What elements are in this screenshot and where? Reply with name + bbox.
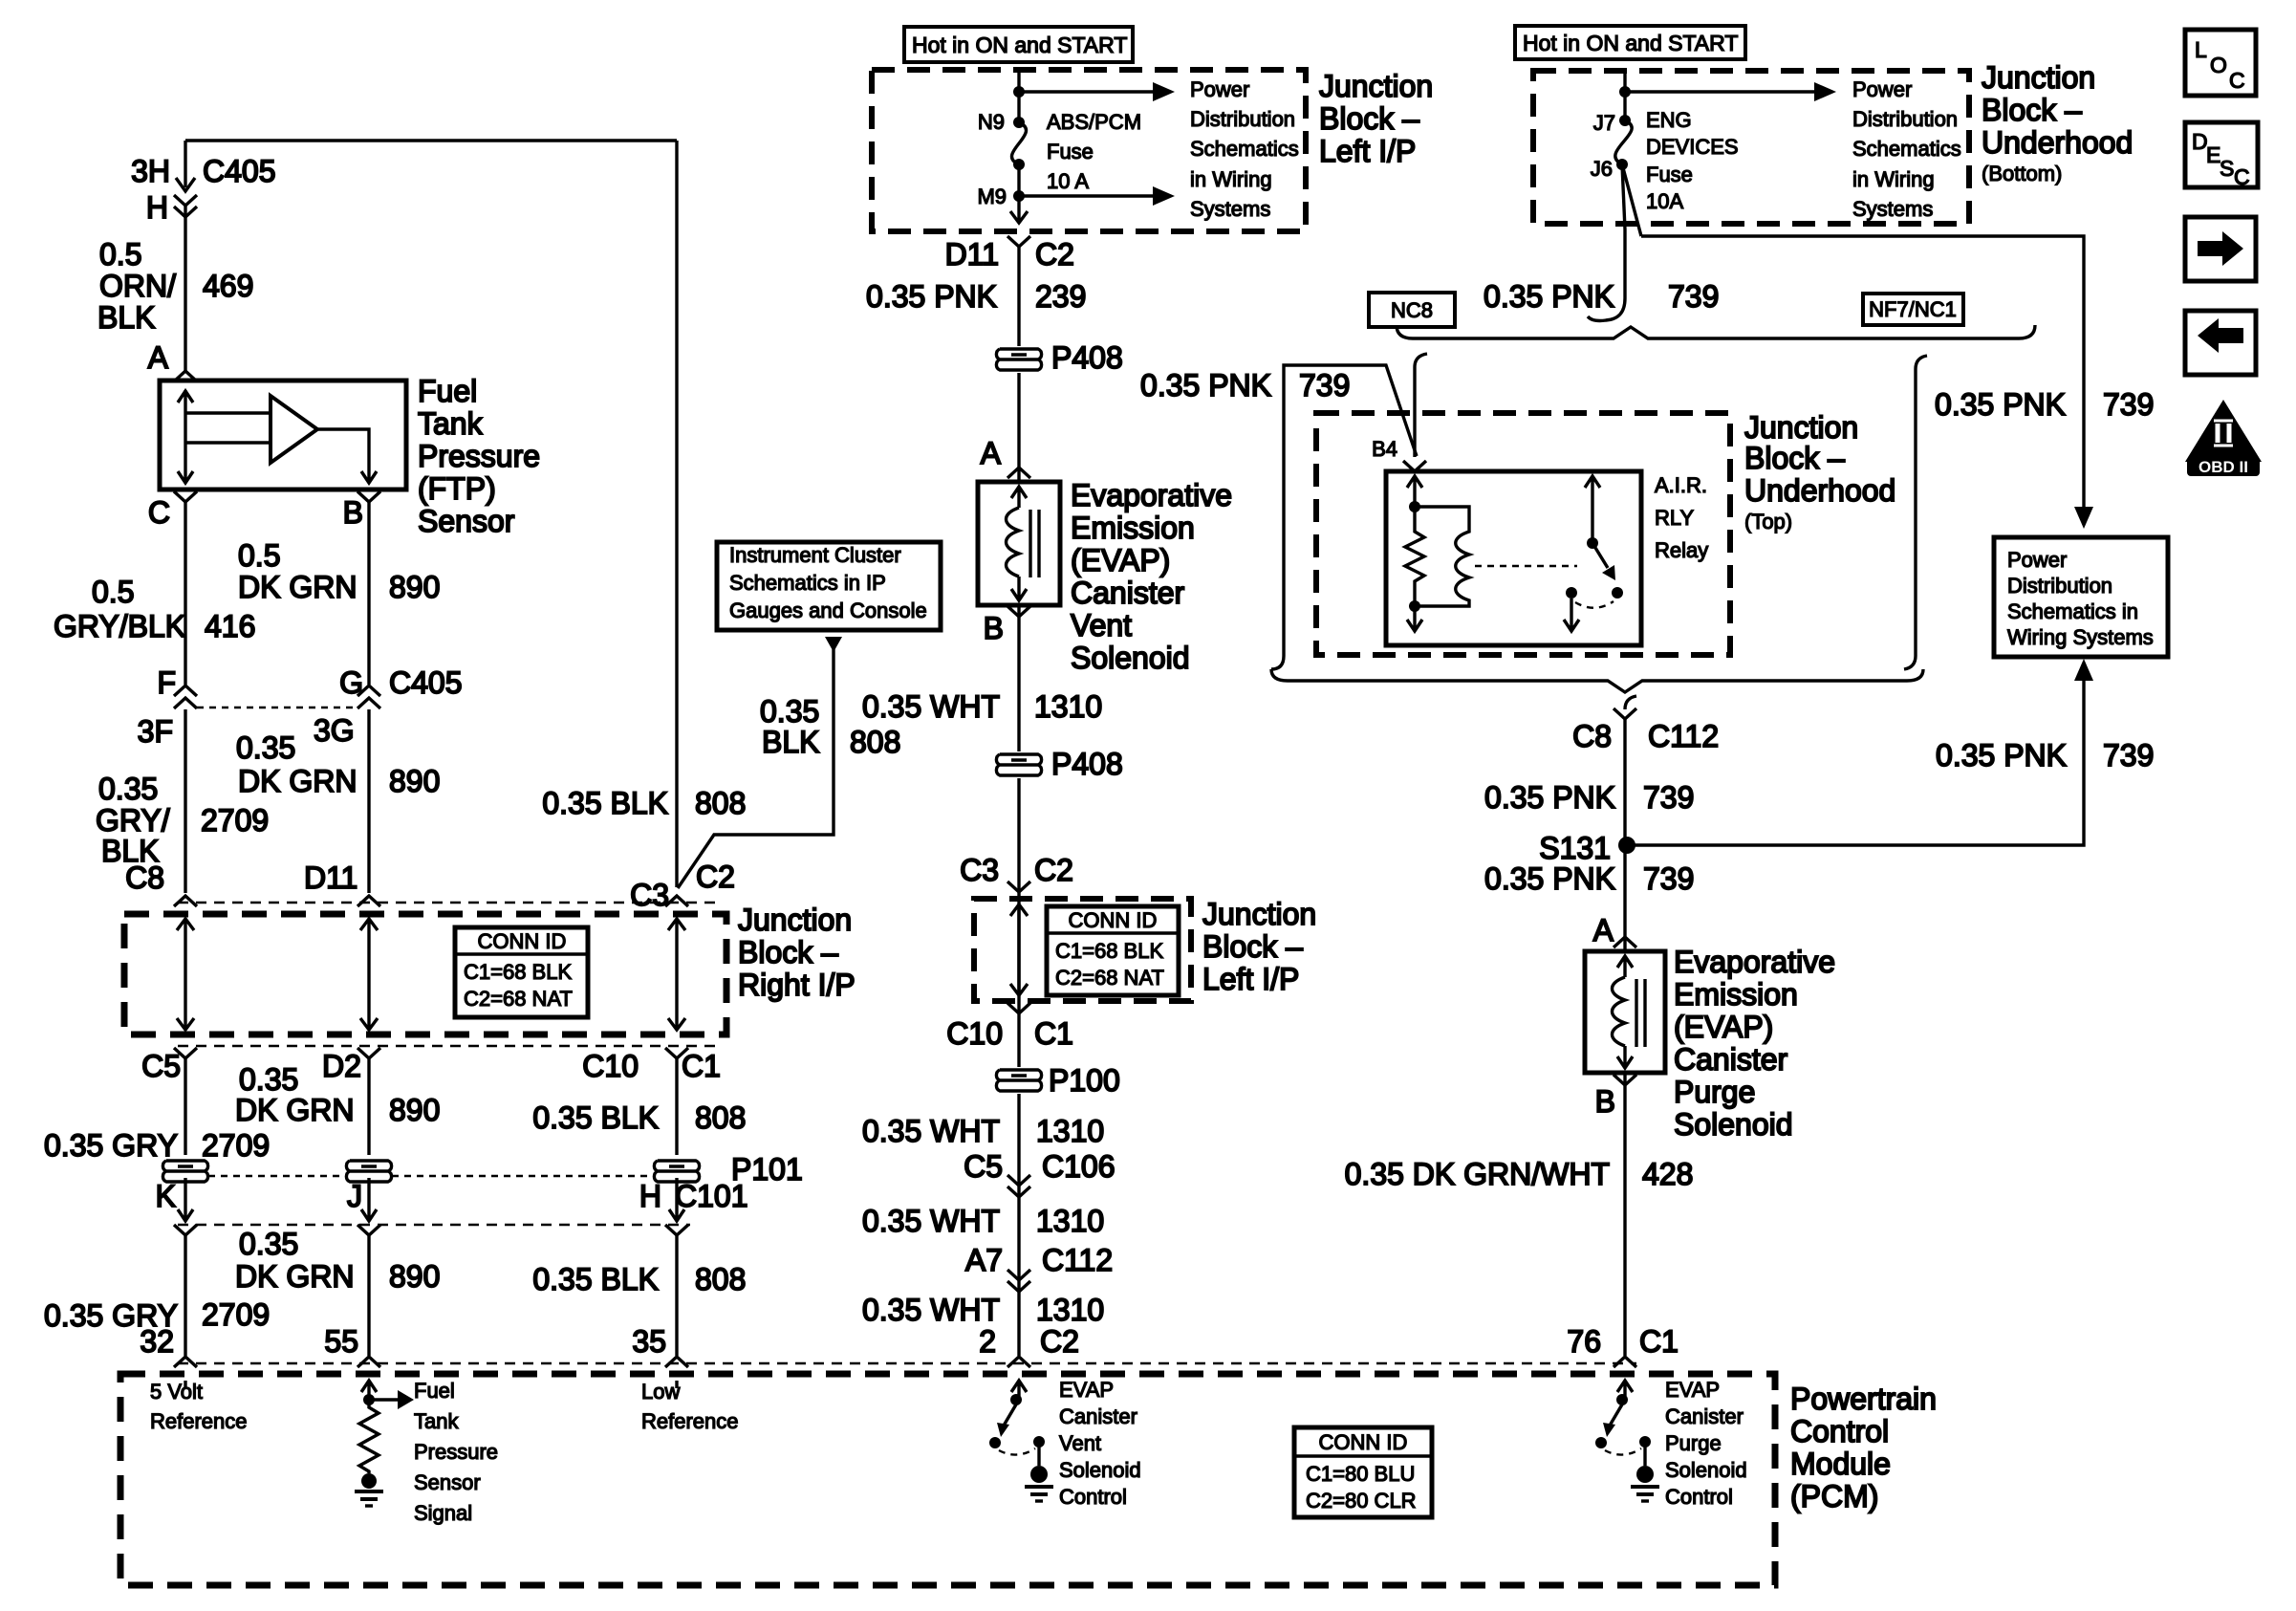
svg-text:D2: D2 — [322, 1049, 361, 1083]
CONN ID table (left IP) — [1047, 906, 1179, 995]
svg-text:Junction: Junction — [1202, 897, 1316, 931]
svg-text:C: C — [2229, 68, 2245, 93]
chevron below left IP block — [1007, 236, 1030, 247]
svg-text:Junction: Junction — [1319, 69, 1433, 103]
icon LOC box — [2185, 30, 2256, 96]
svg-text:Control: Control — [1665, 1485, 1733, 1509]
svg-text:K: K — [156, 1179, 176, 1213]
svg-text:Tank: Tank — [414, 1409, 459, 1433]
svg-text:0.35 BLK: 0.35 BLK — [532, 1100, 659, 1135]
svg-text:J6: J6 — [1591, 157, 1613, 181]
svg-text:Control: Control — [1059, 1485, 1127, 1509]
svg-text:Emission: Emission — [1071, 511, 1195, 545]
svg-text:Vent: Vent — [1059, 1431, 1101, 1455]
wires down to PCM — [185, 1235, 677, 1356]
svg-text:890: 890 — [389, 1093, 440, 1127]
svg-text:2709: 2709 — [202, 1297, 270, 1332]
dashed connector row C101 — [178, 1224, 690, 1227]
svg-text:C1=80 BLU: C1=80 BLU — [1306, 1462, 1415, 1486]
svg-text:C: C — [2234, 164, 2250, 189]
svg-text:C8: C8 — [1572, 719, 1612, 753]
branch arrow to power distribution (top) — [1019, 82, 1175, 101]
chevrons below C101 — [174, 1225, 688, 1235]
svg-text:C101: C101 — [675, 1179, 748, 1213]
node below fuse — [1013, 159, 1025, 170]
chevron at PCM pin 2 — [1007, 1357, 1030, 1367]
svg-text:739: 739 — [1668, 279, 1719, 314]
svg-text:A7: A7 — [965, 1243, 1003, 1277]
svg-text:Control: Control — [1790, 1414, 1889, 1448]
svg-text:C1=68 BLK: C1=68 BLK — [1055, 939, 1163, 963]
svg-text:Right I/P: Right I/P — [738, 968, 856, 1002]
svg-text:Canister: Canister — [1071, 576, 1185, 610]
chevrons at PCM pins — [174, 1357, 688, 1367]
svg-text:C2: C2 — [696, 860, 735, 894]
instrument cluster leader arrow and line to wire — [678, 637, 842, 888]
svg-text:Junction: Junction — [1744, 410, 1858, 445]
svg-text:Block –: Block – — [1319, 101, 1419, 136]
header Hot in ON and START (right) — [1515, 26, 1745, 59]
wires between right IP block and P101 — [185, 1058, 677, 1155]
icon DESC box — [2185, 122, 2258, 189]
branch arrow to power distribution (bottom) — [1019, 186, 1175, 206]
node J7 — [1619, 115, 1631, 126]
junction block right IP internal arrows — [177, 919, 685, 1030]
svg-text:Vent: Vent — [1071, 608, 1132, 642]
EVAP canister purge solenoid box — [1585, 951, 1665, 1073]
svg-text:Reference: Reference — [641, 1409, 739, 1433]
svg-text:Fuse: Fuse — [1047, 140, 1094, 163]
EVAP canister vent solenoid box — [978, 482, 1060, 605]
grommet P100 — [994, 1067, 1044, 1094]
chevrons below junction block right IP — [174, 1048, 688, 1058]
svg-text:A: A — [1593, 913, 1614, 947]
svg-text:55: 55 — [324, 1324, 358, 1359]
FTP signal input: arrow, tap and resistor to ground — [355, 1381, 414, 1506]
svg-text:Solenoid: Solenoid — [1059, 1458, 1141, 1482]
svg-text:0.35 PNK: 0.35 PNK — [1140, 368, 1271, 403]
svg-text:1310: 1310 — [1036, 1293, 1104, 1327]
connector C405 arrow into H (3H) — [174, 178, 197, 217]
chevron pin B purge — [1614, 1075, 1636, 1085]
svg-text:Underhood: Underhood — [1982, 125, 2133, 160]
label Power Distribution Schematics in Wiring Systems (left) — [1190, 77, 1299, 221]
B4 wire from brace — [1415, 354, 1427, 457]
svg-text:S: S — [2220, 156, 2234, 181]
grommet P408 upper — [994, 346, 1044, 373]
svg-text:Solenoid: Solenoid — [1071, 641, 1190, 675]
chevron B4 — [1403, 461, 1426, 471]
svg-text:0.35 PNK: 0.35 PNK — [1484, 279, 1614, 314]
svg-text:C405: C405 — [389, 665, 463, 700]
svg-text:10 A: 10 A — [1047, 169, 1089, 193]
branch arrow to power distribution (right) — [1625, 82, 1836, 101]
pin A chevron — [174, 371, 197, 381]
svg-text:L: L — [2195, 37, 2207, 62]
svg-text:890: 890 — [389, 1259, 440, 1294]
svg-text:3H: 3H — [131, 154, 170, 188]
svg-text:2709: 2709 — [201, 803, 269, 838]
svg-text:D11: D11 — [945, 237, 999, 272]
grommet P101 at J wire — [346, 1161, 391, 1182]
svg-text:0.5: 0.5 — [238, 538, 280, 573]
svg-text:1310: 1310 — [1036, 1204, 1104, 1238]
svg-text:DK GRN: DK GRN — [235, 1259, 354, 1294]
svg-text:Instrument Cluster: Instrument Cluster — [729, 543, 901, 567]
svg-text:DK GRN: DK GRN — [238, 570, 357, 604]
svg-text:C1: C1 — [1639, 1324, 1679, 1359]
dashed PCM connector row — [178, 1362, 1636, 1365]
svg-text:469: 469 — [203, 269, 253, 303]
svg-text:Canister: Canister — [1674, 1042, 1788, 1077]
svg-text:Block –: Block – — [738, 935, 838, 969]
svg-text:2709: 2709 — [202, 1128, 270, 1163]
Fuel Tank Pressure (FTP) Sensor box — [160, 381, 406, 490]
svg-text:(Top): (Top) — [1744, 510, 1792, 533]
svg-text:808: 808 — [850, 725, 900, 759]
wire into ENG DEVICES fuse — [1623, 73, 1626, 120]
svg-text:Pressure: Pressure — [418, 439, 540, 473]
label Evaporative Emission EVAP Canister Purge Solenoid — [1674, 945, 1835, 1142]
svg-text:DK GRN: DK GRN — [238, 764, 357, 798]
svg-text:Systems: Systems — [1852, 197, 1933, 221]
svg-text:D11: D11 — [304, 860, 357, 895]
svg-text:A.I.R.: A.I.R. — [1655, 473, 1707, 497]
svg-text:ORN/: ORN/ — [99, 269, 176, 303]
svg-text:Reference: Reference — [150, 1409, 248, 1433]
svg-text:(EVAP): (EVAP) — [1674, 1010, 1773, 1044]
svg-text:in Wiring: in Wiring — [1190, 167, 1272, 191]
svg-text:0.5: 0.5 — [99, 237, 141, 272]
PCM purge solenoid control driver — [1595, 1381, 1659, 1501]
svg-text:1310: 1310 — [1036, 1114, 1104, 1148]
svg-text:32: 32 — [140, 1324, 174, 1359]
Powertrain Control Module PCM dashed box — [120, 1374, 1775, 1585]
svg-text:C112: C112 — [1042, 1243, 1113, 1277]
svg-text:0.35 GRY: 0.35 GRY — [44, 1128, 178, 1163]
Junction Block Left IP (lower) dashed box — [974, 899, 1191, 1001]
svg-text:Module: Module — [1790, 1447, 1891, 1481]
svg-text:Solenoid: Solenoid — [1665, 1458, 1747, 1482]
svg-text:Relay: Relay — [1655, 538, 1708, 562]
svg-text:739: 739 — [2103, 738, 2154, 773]
svg-text:Power: Power — [1852, 77, 1912, 101]
FTP op-amp input wires — [185, 413, 269, 443]
label ABS/PCM Fuse 10 A — [1047, 110, 1141, 193]
svg-text:Fuel: Fuel — [418, 374, 477, 408]
node N9 — [1013, 117, 1025, 128]
svg-text:0.35: 0.35 — [236, 730, 295, 765]
label Low Reference — [641, 1380, 739, 1433]
wire M9 down with arrow — [1010, 164, 1028, 223]
callout bracket to B4 wire — [1271, 365, 1417, 669]
wire: top feed from C405 down left side — [185, 141, 677, 887]
svg-text:35: 35 — [632, 1324, 666, 1359]
header Hot in ON and START (left) — [904, 27, 1133, 62]
svg-text:0.35 BLK: 0.35 BLK — [532, 1262, 659, 1296]
label Fuel Tank Pressure Sensor Signal — [414, 1379, 498, 1525]
svg-text:C405: C405 — [203, 154, 276, 188]
chevrons into junction block right IP — [174, 896, 688, 906]
svg-text:Gauges and Console: Gauges and Console — [729, 599, 927, 622]
pin C chevron — [174, 491, 197, 502]
svg-text:Pressure: Pressure — [414, 1440, 498, 1464]
svg-text:0.35 PNK: 0.35 PNK — [1936, 738, 2067, 773]
svg-text:Purge: Purge — [1665, 1431, 1722, 1455]
fuse ABS/PCM element — [1011, 122, 1026, 164]
svg-text:10A: 10A — [1646, 189, 1683, 213]
svg-text:RLY: RLY — [1655, 506, 1694, 530]
svg-text:(PCM): (PCM) — [1790, 1479, 1878, 1513]
svg-text:(FTP): (FTP) — [418, 471, 496, 506]
grommet P101 at K wire — [162, 1161, 207, 1182]
svg-text:C10: C10 — [946, 1016, 1003, 1051]
svg-text:C2: C2 — [1035, 237, 1074, 272]
svg-text:Hot in ON and START: Hot in ON and START — [912, 33, 1127, 57]
AIR RLY relay box — [1386, 471, 1641, 645]
top brace junction block underhood top — [1397, 325, 2035, 338]
svg-text:B: B — [1595, 1084, 1615, 1119]
wire down to P408 — [1017, 247, 1020, 1356]
label EVAP Canister Vent Solenoid Control — [1059, 1378, 1141, 1509]
svg-text:0.35: 0.35 — [239, 1062, 298, 1097]
svg-text:Systems: Systems — [1190, 197, 1270, 221]
svg-text:Distribution: Distribution — [2007, 574, 2112, 598]
svg-text:739: 739 — [1299, 368, 1350, 403]
label Junction Block Left I/P (lower) — [1202, 897, 1316, 996]
svg-text:0.5: 0.5 — [92, 575, 134, 609]
svg-text:Left I/P: Left I/P — [1319, 134, 1416, 168]
icon OBD II triangle — [2185, 400, 2262, 476]
svg-text:M9: M9 — [977, 185, 1007, 208]
CONN ID table (PCM) — [1294, 1427, 1432, 1517]
FTP op-amp output wire to pin B — [317, 429, 377, 483]
PCM 5 volt ref entry arrow — [184, 1381, 186, 1388]
right bracket NF7/NC1 — [1904, 356, 1927, 669]
svg-text:BLK: BLK — [762, 725, 819, 759]
svg-text:0.35 PNK: 0.35 PNK — [1484, 861, 1615, 896]
svg-text:416: 416 — [205, 609, 255, 643]
svg-text:Left I/P: Left I/P — [1202, 962, 1299, 996]
S131 branch to power distribution box (up arrow) — [1627, 659, 2093, 845]
svg-text:Tank: Tank — [418, 406, 484, 441]
svg-text:(Bottom): (Bottom) — [1982, 162, 2062, 185]
svg-text:C8: C8 — [125, 860, 164, 895]
svg-text:0.35 WHT: 0.35 WHT — [862, 1204, 1000, 1238]
svg-text:Schematics: Schematics — [1852, 137, 1961, 161]
svg-text:0.35 DK GRN/WHT: 0.35 DK GRN/WHT — [1345, 1157, 1610, 1191]
svg-text:Power: Power — [2007, 548, 2067, 572]
svg-text:Solenoid: Solenoid — [1674, 1107, 1793, 1142]
feed line to power distribution box (right) — [1641, 236, 2093, 529]
svg-text:Sensor: Sensor — [414, 1470, 481, 1494]
svg-text:C3: C3 — [630, 878, 669, 912]
svg-text:Evaporative: Evaporative — [1071, 478, 1232, 512]
node J6 — [1616, 159, 1628, 170]
label Junction Block Underhood (Bottom) — [1982, 60, 2133, 185]
svg-text:Sensor: Sensor — [418, 504, 515, 538]
Junction Block Underhood (Bottom) dashed box — [1533, 71, 1969, 224]
svg-text:Schematics: Schematics — [1190, 137, 1299, 161]
svg-text:OBD II: OBD II — [2199, 458, 2248, 476]
svg-text:Schematics in IP: Schematics in IP — [729, 571, 886, 595]
svg-text:739: 739 — [1643, 780, 1694, 815]
svg-text:Canister: Canister — [1059, 1404, 1137, 1428]
svg-text:BLK: BLK — [97, 300, 155, 335]
svg-text:Fuse: Fuse — [1646, 163, 1693, 186]
FTP op-amp triangle — [271, 396, 317, 463]
svg-text:Wiring Systems: Wiring Systems — [2007, 625, 2154, 649]
svg-text:B4: B4 — [1372, 437, 1397, 461]
svg-text:C3: C3 — [960, 853, 999, 887]
dashed connector row C5 D2 C10 C1 — [178, 1045, 722, 1048]
svg-text:C2=68 NAT: C2=68 NAT — [464, 987, 573, 1011]
svg-text:P408: P408 — [1051, 340, 1123, 375]
label NF7/NC1 box — [1863, 294, 1963, 325]
svg-text:C2=68 NAT: C2=68 NAT — [1055, 966, 1164, 990]
wire C pin down — [184, 502, 186, 893]
svg-text:C112: C112 — [1648, 719, 1719, 753]
svg-text:(EVAP): (EVAP) — [1071, 543, 1170, 577]
icon left arrow box — [2185, 311, 2256, 375]
wire into fuse from header — [1017, 72, 1020, 120]
svg-text:76: 76 — [1567, 1324, 1601, 1359]
svg-text:A: A — [148, 340, 169, 375]
label A.I.R. RLY Relay — [1655, 473, 1708, 562]
svg-text:EVAP: EVAP — [1665, 1378, 1720, 1402]
connector C405 double chevrons at F — [174, 686, 197, 708]
svg-text:Junction: Junction — [738, 903, 852, 937]
svg-text:239: 239 — [1035, 279, 1086, 314]
svg-text:A: A — [981, 436, 1002, 470]
svg-text:GRY/: GRY/ — [96, 803, 170, 838]
svg-text:C: C — [148, 495, 170, 530]
double chevron C106 — [1007, 1175, 1030, 1197]
diagonal J6 to feed line — [1622, 164, 1641, 236]
label Junction Block Left I/P (top) — [1319, 69, 1433, 168]
svg-text:0.35 WHT: 0.35 WHT — [862, 1293, 1000, 1327]
chevron pin A vent — [1007, 468, 1030, 478]
node M9 — [1013, 190, 1025, 202]
label NC8 box — [1369, 293, 1455, 327]
svg-text:Power: Power — [1190, 77, 1249, 101]
svg-text:H: H — [639, 1179, 661, 1213]
svg-text:808: 808 — [695, 786, 746, 820]
svg-text:0.35 BLK: 0.35 BLK — [542, 786, 668, 820]
Junction Block Left IP (top) dashed box — [872, 70, 1306, 231]
svg-text:EVAP: EVAP — [1059, 1378, 1114, 1402]
label Powertrain Control Module (PCM) — [1790, 1382, 1937, 1513]
label EVAP Canister Purge Solenoid Control — [1665, 1378, 1747, 1509]
svg-text:GRY/BLK: GRY/BLK — [54, 609, 185, 643]
svg-text:0.35: 0.35 — [98, 772, 158, 806]
svg-text:ENG: ENG — [1646, 108, 1692, 132]
svg-text:0.35: 0.35 — [760, 694, 819, 729]
svg-text:DK GRN: DK GRN — [235, 1093, 354, 1127]
svg-text:C2=80 CLR: C2=80 CLR — [1306, 1489, 1417, 1513]
grommet P101 at H wire — [654, 1161, 699, 1182]
Junction Block Underhood (Top) dashed box — [1316, 413, 1730, 655]
svg-text:Purge: Purge — [1674, 1075, 1755, 1109]
purge solenoid coil — [1613, 956, 1646, 1068]
svg-text:0.35 PNK: 0.35 PNK — [1935, 387, 2066, 422]
bottom brace junction block underhood top — [1271, 669, 1923, 692]
svg-text:428: 428 — [1642, 1157, 1693, 1191]
svg-text:H: H — [146, 190, 168, 225]
chevron into left IP lower block — [1007, 882, 1030, 892]
svg-text:3G: 3G — [314, 713, 355, 748]
svg-text:Signal: Signal — [414, 1501, 472, 1525]
svg-text:C5: C5 — [964, 1149, 1003, 1184]
svg-text:NF7/NC1: NF7/NC1 — [1869, 297, 1957, 321]
svg-text:Canister: Canister — [1665, 1404, 1744, 1428]
label Power Distribution Schematics in Wiring Systems (right) — [1852, 77, 1961, 221]
svg-text:739: 739 — [1643, 861, 1694, 896]
label Junction Block Right I/P — [738, 903, 856, 1002]
wire J6 down to NC8 brace with end curl — [1588, 164, 1625, 321]
svg-text:808: 808 — [695, 1262, 746, 1296]
svg-text:Distribution: Distribution — [1190, 107, 1295, 131]
svg-text:Junction: Junction — [1982, 60, 2095, 95]
label 5 Volt Reference — [150, 1380, 248, 1433]
svg-text:J7: J7 — [1593, 111, 1615, 135]
svg-text:C2: C2 — [1034, 853, 1073, 887]
svg-text:CONN ID: CONN ID — [1319, 1430, 1408, 1454]
grommet P408 lower — [994, 751, 1044, 778]
svg-text:B: B — [343, 495, 363, 530]
node at branch (right) — [1619, 86, 1631, 98]
svg-text:0.35 WHT: 0.35 WHT — [862, 1114, 1000, 1148]
svg-text:J: J — [347, 1179, 362, 1213]
chevron below left IP lower — [1007, 1003, 1030, 1013]
svg-text:739: 739 — [2103, 387, 2154, 422]
svg-text:5 Volt: 5 Volt — [150, 1380, 203, 1404]
svg-text:Emission: Emission — [1674, 977, 1798, 1012]
svg-text:C1: C1 — [682, 1049, 721, 1083]
svg-text:Fuel: Fuel — [414, 1379, 455, 1403]
double chevron C112 — [1007, 1270, 1030, 1292]
svg-text:3F: 3F — [138, 714, 173, 749]
svg-text:Block –: Block – — [1202, 929, 1303, 964]
dashed connector line C405 — [197, 707, 357, 708]
CONN ID table (right IP) — [455, 927, 588, 1017]
Junction Block Right I/P dashed box — [124, 914, 726, 1034]
svg-text:CONN ID: CONN ID — [1069, 908, 1158, 932]
svg-text:Schematics in: Schematics in — [2007, 599, 2138, 623]
svg-text:C2: C2 — [1040, 1324, 1079, 1359]
svg-text:O: O — [2210, 53, 2227, 77]
vent solenoid coil — [1007, 487, 1040, 600]
svg-text:ABS/PCM: ABS/PCM — [1047, 110, 1141, 134]
node at power distribution branch — [1013, 86, 1025, 98]
arrows down into C101 row — [178, 1178, 684, 1221]
svg-text:C106: C106 — [1042, 1149, 1116, 1184]
PCM low ref entry arrow — [675, 1381, 678, 1388]
svg-text:NC8: NC8 — [1391, 298, 1433, 322]
svg-text:Evaporative: Evaporative — [1674, 945, 1835, 979]
left IP lower internal arrow — [1010, 904, 1028, 995]
label Fuel Tank Pressure (FTP) Sensor — [418, 374, 540, 538]
splice S131 — [1618, 837, 1635, 854]
chevron pin B vent — [1007, 606, 1030, 617]
wire B pin down — [367, 502, 370, 893]
svg-text:N9: N9 — [978, 110, 1005, 134]
relay switch branch — [1564, 476, 1623, 631]
svg-text:2: 2 — [979, 1324, 996, 1359]
fuse ENG DEVICES element — [1615, 120, 1632, 164]
svg-text:Block –: Block – — [1744, 441, 1845, 475]
svg-text:0.35 PNK: 0.35 PNK — [866, 279, 997, 314]
